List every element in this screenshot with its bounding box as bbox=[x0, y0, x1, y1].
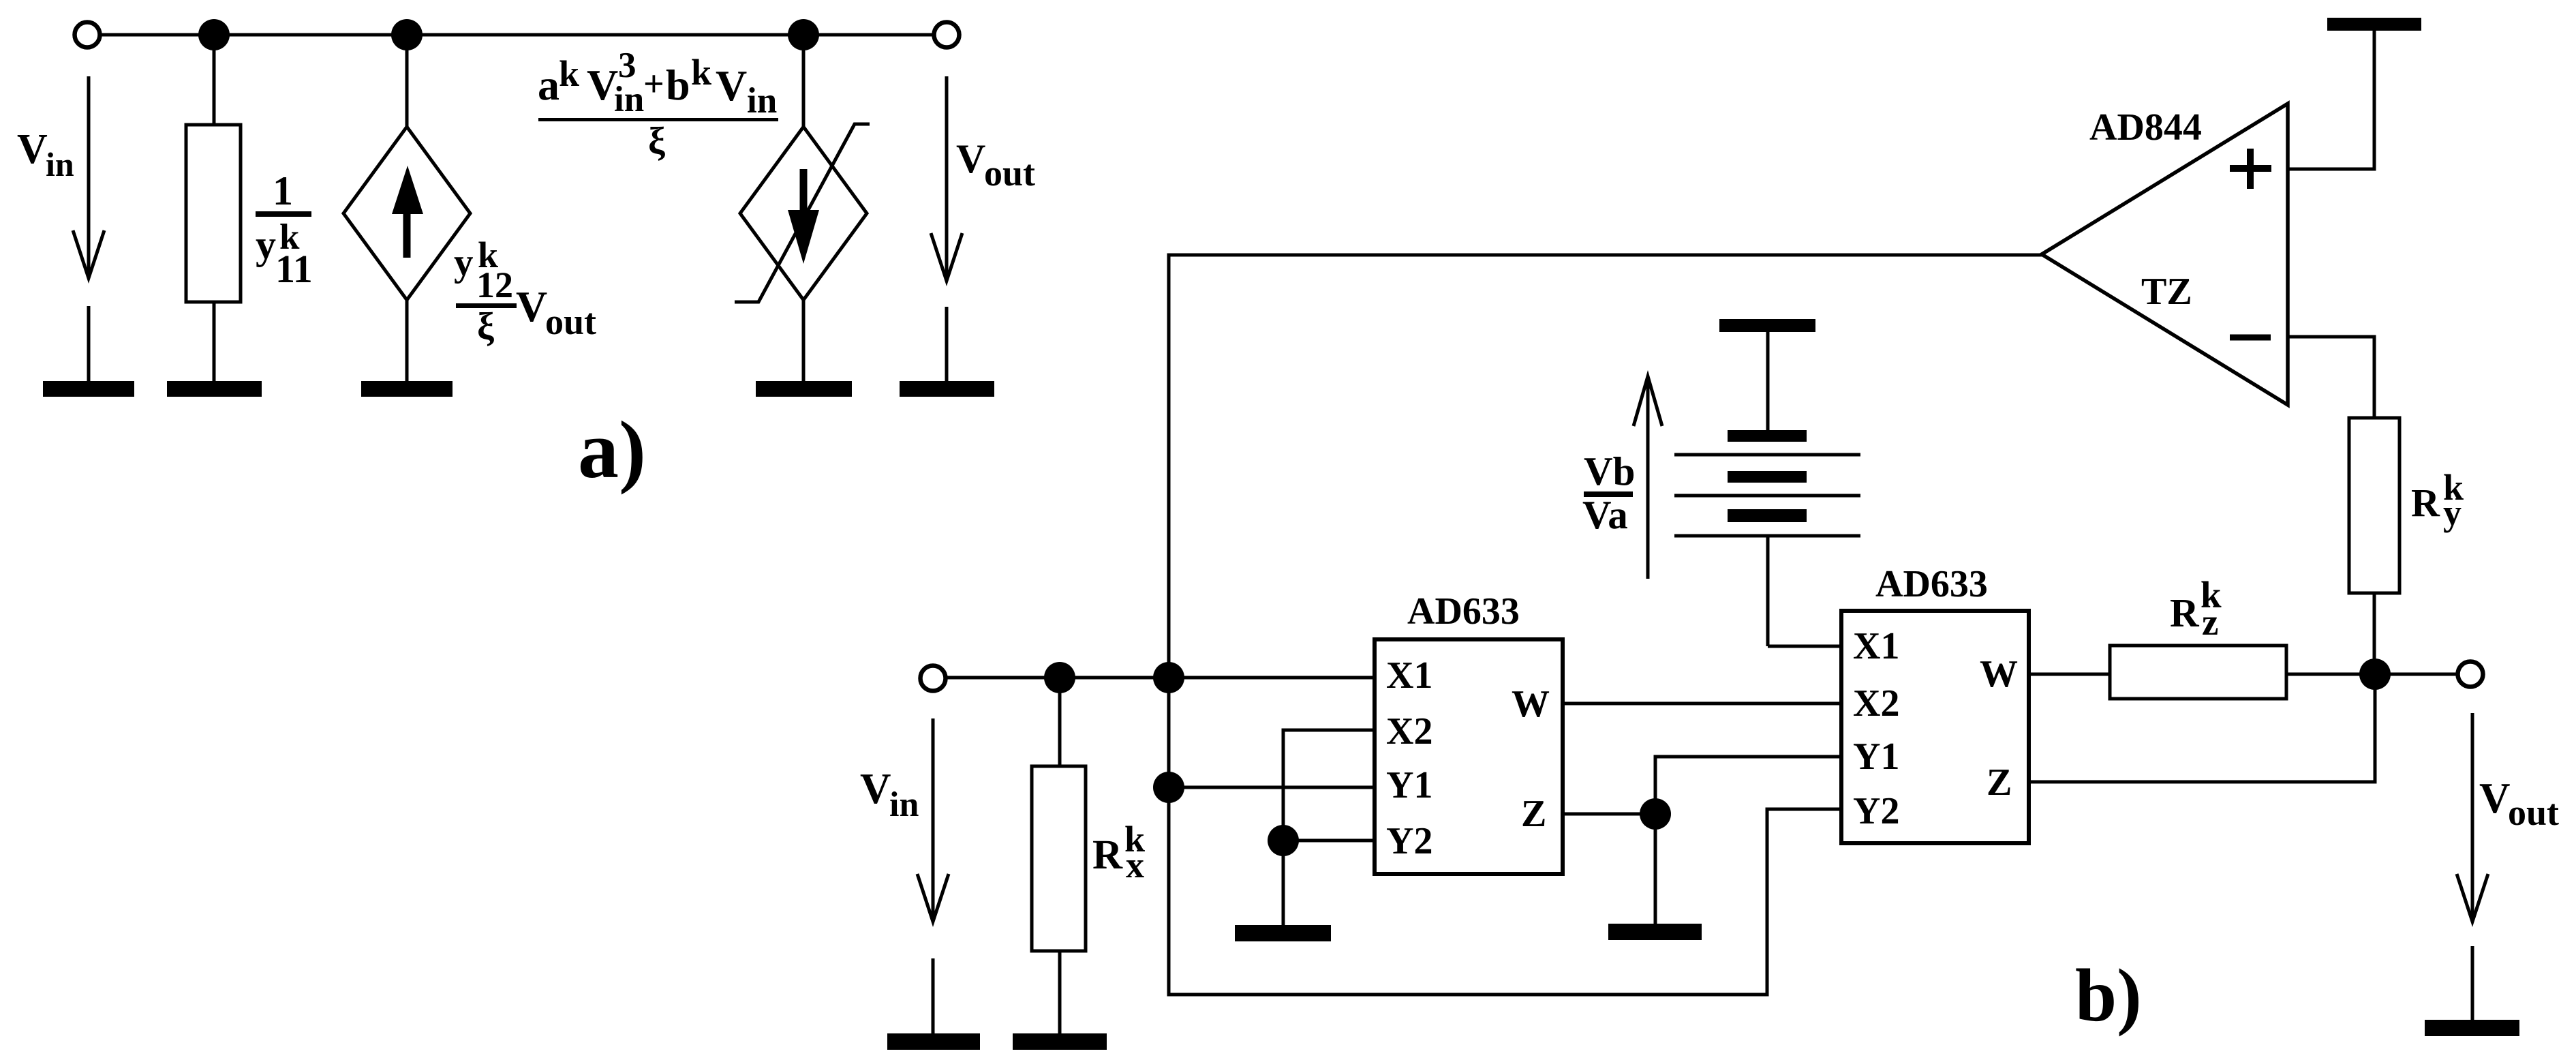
svg-text:Y2: Y2 bbox=[1386, 820, 1432, 862]
svg-text:y: y bbox=[2443, 492, 2462, 533]
label Vin b bbox=[860, 765, 919, 824]
svg-text:out: out bbox=[545, 301, 596, 342]
ground under X2-Y2 box1 bbox=[1235, 841, 1331, 941]
svg-text:V: V bbox=[860, 765, 891, 813]
wire node to terminal bbox=[2375, 673, 2458, 676]
terminal input a bbox=[75, 22, 100, 48]
terminal output b bbox=[2458, 662, 2483, 687]
op-amp AD844 triangle bbox=[2042, 104, 2288, 405]
wire top rail a bbox=[100, 33, 934, 37]
wire W box1 to X2 box2 bbox=[1563, 702, 1841, 706]
svg-text:ξ: ξ bbox=[648, 120, 665, 162]
svg-text:in: in bbox=[889, 785, 919, 824]
svg-text:X1: X1 bbox=[1853, 625, 1899, 667]
label Vin a bbox=[17, 126, 74, 183]
value label 1/y11 bbox=[256, 168, 313, 291]
svg-text:X1: X1 bbox=[1386, 654, 1432, 697]
wire Z box1 to Y1 box2 bbox=[1655, 757, 1841, 814]
resistor 1/y11 bbox=[186, 49, 241, 381]
node dot b-fb1 bbox=[1153, 662, 1184, 693]
ground under Z box1 bbox=[1608, 814, 1702, 940]
label Rx bbox=[1092, 819, 1145, 885]
wire Z box1 bbox=[1563, 813, 1655, 816]
svg-text:b): b) bbox=[2075, 954, 2142, 1037]
svg-text:Z: Z bbox=[1521, 793, 1546, 835]
svg-text:y: y bbox=[256, 222, 276, 267]
power bar AD844 bbox=[2327, 18, 2421, 31]
svg-text:AD844: AD844 bbox=[2089, 106, 2202, 149]
wire Y2 box1 bbox=[1283, 839, 1375, 843]
power bar battery top bbox=[1719, 319, 1815, 332]
label Ry bbox=[2411, 467, 2464, 533]
node dot a1 bbox=[198, 19, 230, 50]
voltage arrow Vin a bbox=[73, 76, 104, 278]
svg-text:k: k bbox=[691, 52, 711, 93]
ground under source y12 bbox=[361, 381, 453, 397]
svg-text:in: in bbox=[614, 80, 644, 119]
voltage arrow Vout b bbox=[2457, 713, 2488, 922]
svg-text:AD633: AD633 bbox=[1875, 563, 1988, 605]
terminal input b bbox=[921, 666, 946, 691]
svg-text:Vb: Vb bbox=[1584, 449, 1635, 494]
minus input mark bbox=[2230, 335, 2271, 341]
svg-text:b: b bbox=[666, 61, 690, 109]
wire battery to X1 box2 bbox=[1768, 645, 1841, 648]
svg-text:V: V bbox=[17, 126, 48, 172]
formula label a^k Vin^3 + b^k Vin over xi bbox=[538, 46, 778, 162]
node dot b-Rx bbox=[1044, 662, 1075, 693]
node dot a3 bbox=[788, 19, 819, 50]
svg-text:k: k bbox=[559, 53, 579, 94]
multiplier U2 box AD633 bbox=[1841, 611, 2029, 843]
resistor Rx bbox=[1032, 678, 1086, 1033]
ground under Vin b bbox=[887, 958, 980, 1050]
node dot X2-Y2 box1 bbox=[1268, 825, 1299, 856]
wire W box2 to Rz bbox=[2029, 673, 2110, 676]
wire Y1 box1 bbox=[1169, 786, 1375, 789]
svg-text:ξ: ξ bbox=[477, 305, 494, 348]
svg-text:V: V bbox=[716, 61, 747, 110]
svg-text:Va: Va bbox=[1582, 492, 1628, 537]
svg-text:Y2: Y2 bbox=[1853, 790, 1899, 832]
voltage arrow Vin b bbox=[917, 718, 949, 922]
wire feedback loop bbox=[1169, 255, 2042, 995]
battery Vb/Va bbox=[1674, 331, 1860, 646]
wire Rz to output node bbox=[2286, 673, 2375, 676]
ground under Rx bbox=[1013, 1033, 1107, 1050]
svg-text:x: x bbox=[1126, 845, 1144, 885]
ground under Vin a bbox=[43, 306, 134, 397]
label Vout b bbox=[2479, 774, 2559, 833]
svg-text:W: W bbox=[1980, 653, 2018, 695]
svg-text:R: R bbox=[2170, 590, 2200, 635]
svg-text:1: 1 bbox=[273, 168, 293, 213]
dependent current source y12 bbox=[343, 49, 470, 381]
plus input mark bbox=[2230, 149, 2271, 189]
wire Z box2 bbox=[2029, 674, 2375, 782]
node dot output bbox=[2359, 658, 2391, 690]
svg-text:R: R bbox=[2411, 481, 2440, 525]
ground under varistor bbox=[756, 381, 852, 397]
ground under Vout b bbox=[2425, 946, 2519, 1036]
voltage arrow Vout a bbox=[931, 76, 962, 281]
svg-text:X2: X2 bbox=[1386, 710, 1432, 753]
wire input bus b bbox=[946, 676, 1375, 680]
label Rz bbox=[2170, 574, 2222, 643]
svg-text:W: W bbox=[1512, 683, 1550, 725]
svg-text:Y1: Y1 bbox=[1386, 764, 1432, 806]
svg-text:a: a bbox=[538, 61, 559, 109]
svg-text:a): a) bbox=[578, 404, 646, 495]
svg-text:X2: X2 bbox=[1853, 682, 1899, 725]
svg-text:out: out bbox=[984, 153, 1035, 194]
wire minus to Ry bbox=[2288, 337, 2374, 418]
value label y12/xi Vout bbox=[454, 234, 596, 348]
node dot a2 bbox=[391, 19, 423, 50]
svg-text:Z: Z bbox=[1987, 761, 2012, 804]
resistor Rz bbox=[2110, 646, 2286, 699]
svg-text:AD633: AD633 bbox=[1407, 590, 1520, 633]
svg-text:V: V bbox=[2479, 774, 2511, 822]
terminal output a bbox=[934, 22, 960, 48]
resistor Ry bbox=[2349, 418, 2399, 674]
svg-text:out: out bbox=[2508, 792, 2559, 833]
ground under resistor 1/y11 bbox=[167, 381, 262, 397]
node dot b-fb2 bbox=[1153, 772, 1184, 803]
ground under Vout a bbox=[900, 307, 994, 397]
multiplier U1 box AD633 bbox=[1375, 639, 1563, 874]
wire X2 box1 bbox=[1283, 730, 1375, 841]
arrow battery voltage bbox=[1634, 376, 1662, 579]
svg-text:in: in bbox=[747, 81, 777, 121]
svg-text:y: y bbox=[454, 241, 474, 284]
svg-text:11: 11 bbox=[275, 247, 313, 291]
node dot Z box1 bbox=[1640, 798, 1671, 830]
svg-text:TZ: TZ bbox=[2141, 271, 2192, 313]
svg-text:12: 12 bbox=[476, 264, 513, 305]
label Vout a bbox=[956, 136, 1035, 194]
wire plus to power bbox=[2288, 31, 2374, 169]
nonlinear controlled source (varistor) bbox=[735, 49, 870, 381]
svg-text:in: in bbox=[46, 145, 74, 183]
label Vb/Va bbox=[1582, 449, 1635, 537]
svg-text:Y1: Y1 bbox=[1853, 736, 1899, 778]
svg-text:+: + bbox=[643, 63, 664, 104]
svg-text:R: R bbox=[1092, 832, 1123, 878]
svg-text:V: V bbox=[956, 136, 985, 181]
svg-text:V: V bbox=[516, 282, 547, 331]
svg-text:z: z bbox=[2202, 601, 2218, 643]
